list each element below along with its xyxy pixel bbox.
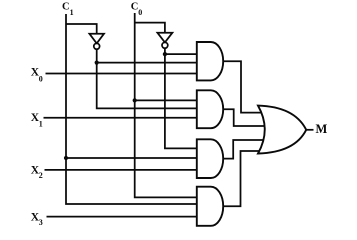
junction dot C0/AND2: [133, 98, 137, 102]
node X3 label: [31, 212, 43, 227]
node X1 label: [31, 112, 43, 129]
node X0 label: [31, 67, 43, 84]
wire AND2 output to OR input 2: [222, 109, 272, 126]
wire C1 branch to inverter U1: [66, 24, 97, 35]
and-gate U3 (AND1): [197, 42, 223, 80]
svg-text:2: 2: [39, 171, 43, 180]
wire X1 to AND2 input 3: [44, 117, 199, 119]
svg-text:M: M: [316, 122, 328, 136]
inverter U2 (C0'): [157, 33, 172, 48]
wire C0 vertical down to AND4 input 1: [135, 13, 198, 197]
wire X0 to AND1 input 3: [46, 73, 199, 75]
node C1 label: [62, 2, 74, 18]
or-gate U7: [258, 106, 306, 154]
junction dot C1/AND3: [64, 156, 68, 160]
and-gate U4 (AND2): [197, 90, 223, 128]
svg-text:C: C: [131, 2, 139, 13]
svg-text:1: 1: [70, 8, 74, 17]
wire C0' vertical down to AND3 input 1: [165, 48, 198, 148]
junction dot C1'/AND1: [95, 61, 99, 65]
wire AND4 output to OR input 4: [222, 151, 272, 206]
svg-text:C: C: [62, 2, 70, 13]
wire X2 to AND3 input 3: [45, 169, 199, 171]
wire C1' branch to AND1 input 2: [97, 62, 198, 64]
node C0 label: [131, 2, 143, 17]
wire OR output to M: [306, 129, 313, 131]
wire AND1 output to OR input 1: [222, 61, 272, 112]
wire X3 to AND4 input 3: [47, 216, 199, 218]
wire C1' vertical down to AND2 input 2: [97, 49, 198, 108]
wire AND3 output to OR input 3: [222, 140, 272, 159]
node X2 label: [31, 165, 43, 180]
wire C0 branch to AND2 input 1: [135, 99, 198, 101]
and-gate U6 (AND4): [197, 187, 223, 226]
junction dot C0'/AND1: [163, 52, 167, 56]
svg-text:0: 0: [39, 75, 43, 84]
wire C0' branch to AND1 input 1: [165, 53, 198, 55]
wire C0 branch to inverter U2: [135, 23, 165, 34]
svg-text:1: 1: [39, 120, 43, 129]
wire C1 branch to AND3 input 2: [66, 157, 198, 159]
wire C1 vertical down to AND4 input 2: [66, 14, 198, 204]
inverter U1 (C1'): [89, 34, 104, 49]
svg-text:0: 0: [138, 8, 142, 17]
svg-text:3: 3: [39, 218, 43, 227]
and-gate U5 (AND3): [197, 139, 223, 178]
node M label: [316, 122, 328, 136]
